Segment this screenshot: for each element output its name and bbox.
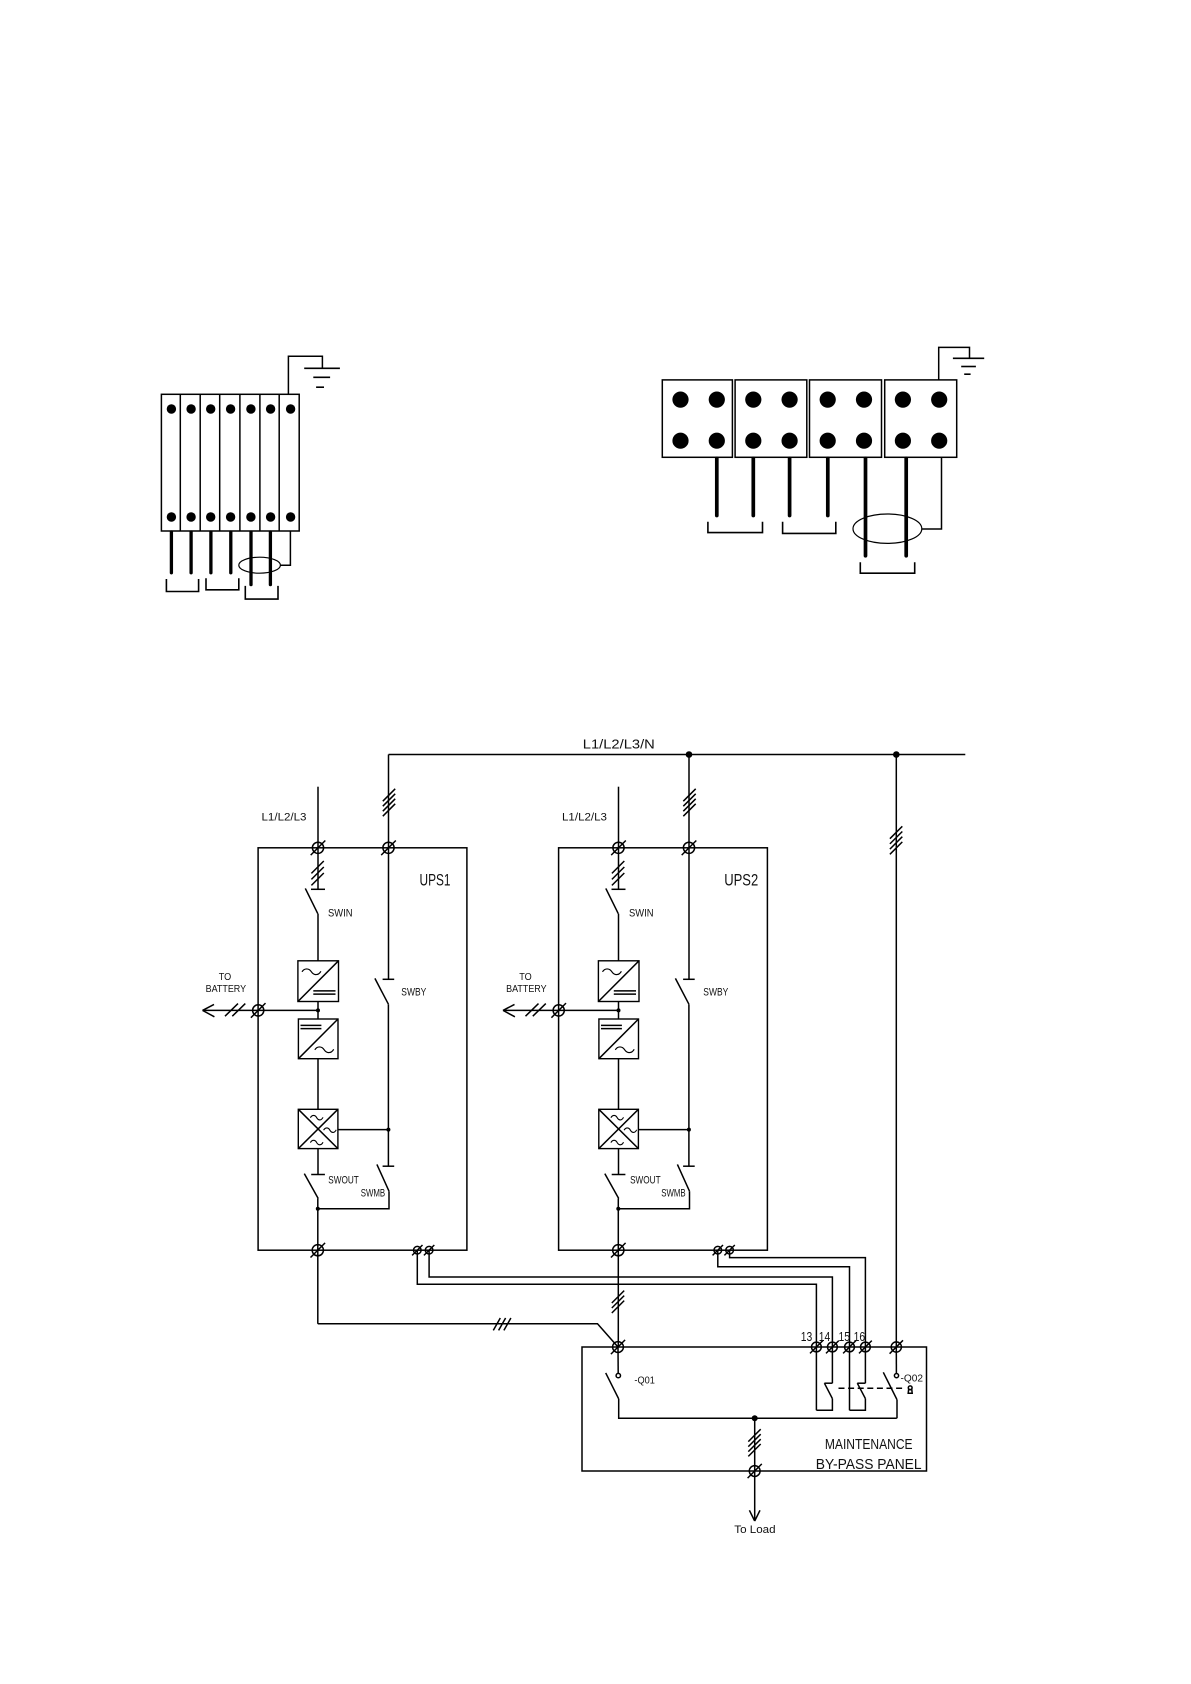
arrowhead to battery (UPS1) (203, 1004, 215, 1016)
wire: UPS1 mains input stub L1/L2/L3 (317, 787, 319, 848)
terminal: UPS2 bypass feed-through bushing B (724, 1245, 734, 1255)
rectifier U4 (UPS2 AC/DC converter) (598, 961, 639, 1002)
node: UPS1 inverter/bypass junction (386, 1128, 390, 1132)
wire: panel bus to output bushing (754, 1418, 756, 1471)
wire: UPS2 inverter output to bypass node (638, 1129, 689, 1131)
arrowhead to load (749, 1510, 760, 1521)
wire: SWMB down and across to output node (318, 1191, 389, 1209)
break mark on UPS2 battery feeder (526, 1004, 546, 1017)
switch SWIN (UPS2) blade (606, 888, 619, 913)
terminal: UPS1 bypass feed-through bushing A (412, 1245, 422, 1255)
terminal: UPS1 bypass input bushing (381, 841, 396, 856)
TB2 current transformer ellipse (853, 514, 922, 543)
node: UPS1 DC bus junction (316, 1008, 320, 1012)
terminal: UPS2 bypass input bushing (682, 841, 697, 856)
TB1 earth conductor to ground (288, 356, 322, 394)
terminal: panel bypass input bushing (890, 1340, 903, 1353)
ground symbol (left) (304, 368, 340, 387)
svg-text:16: 16 (854, 1330, 866, 1344)
battery converter U2 (UPS1 DC/DC) (298, 1019, 338, 1059)
wire: -Q02 down to panel bus (896, 1400, 898, 1419)
wire: UPS1 output line through bottom bushing (317, 1199, 319, 1324)
svg-text:SWIN: SWIN (328, 907, 353, 919)
break mark on UPS1 input line (311, 861, 323, 885)
switch SWOUT (UPS1) fixed contact tick (311, 1174, 325, 1176)
wire: mains rail L1/L2/L3/N (389, 754, 966, 756)
wire: UPS1 output run to panel input (318, 1324, 618, 1347)
switch SWOUT (UPS1) blade (304, 1174, 318, 1199)
break mark on UPS1 bypass dropper (383, 789, 395, 816)
breaker 15/16 fixed contact tick (857, 1382, 865, 1384)
battery converter U5 (UPS2 DC/DC) (599, 1019, 639, 1059)
switch SWBY (UPS2) fixed contact tick (683, 978, 695, 980)
terminal 16 bushing (859, 1341, 872, 1354)
wire: DC link to inverter (317, 1059, 319, 1110)
TB1 current transformer ellipse (239, 557, 281, 573)
svg-text:To Load: To Load (734, 1524, 775, 1536)
break mark on maintenance bypass dropper (890, 826, 902, 854)
svg-text:UPS2: UPS2 (724, 870, 758, 889)
node: UPS2 DC bus junction (617, 1008, 621, 1012)
switch SWIN (UPS2) fixed contact tick (612, 888, 626, 890)
svg-text:MAINTENANCE: MAINTENANCE (825, 1436, 913, 1453)
wire: UPS1 battery feeder (203, 1009, 319, 1011)
terminal: UPS2 bypass feed-through bushing A (713, 1245, 723, 1255)
switch SWMB (UPS2) fixed contact tick (683, 1165, 695, 1167)
switch -Q02 upper contact circle (894, 1347, 898, 1378)
switch SWMB (UPS1) fixed contact tick (383, 1165, 395, 1167)
TB2 cable group bracket 3 (860, 562, 914, 573)
terminal: UPS1 output bushing (311, 1243, 326, 1258)
switch SWBY (UPS1) blade (375, 978, 389, 1004)
terminal 13 bushing (810, 1341, 823, 1354)
svg-text:SWOUT: SWOUT (630, 1175, 661, 1187)
break mark on UPS2 input line (612, 861, 624, 885)
TB2 thin earth tail wire (922, 457, 942, 529)
UPS1 enclosure box (258, 848, 467, 1250)
svg-text:BY-PASS PANEL: BY-PASS PANEL (816, 1456, 922, 1473)
wire: UPS2 output line through bottom bushing (617, 1199, 619, 1348)
switch SWMB (UPS1) blade (377, 1164, 389, 1191)
break mark on UPS1 output run (493, 1318, 511, 1330)
TB1 outgoing cable wires (171, 532, 270, 585)
svg-text:SWIN: SWIN (629, 907, 654, 919)
terminal: UPS1 battery bushing on enclosure (251, 1003, 266, 1018)
wire: dropper from rail to UPS1 bypass input (388, 755, 390, 848)
TB2 screw contact dots (672, 392, 947, 449)
terminal: panel output bushing (748, 1464, 762, 1478)
wire: -Q01 to panel bus (619, 1399, 897, 1418)
wire: panel output to load (754, 1471, 756, 1521)
dashed interlock linkage 13/14-15/16--Q02 (839, 1387, 904, 1389)
switch SWIN (UPS1) blade (305, 888, 318, 913)
node: rail junction at maintenance bypass dropper (893, 751, 900, 758)
switch SWBY (UPS1) fixed contact tick (383, 978, 395, 980)
wire: SWIN to rectifier (317, 914, 319, 961)
wire: SWBY to junction and SWMB contact (387, 1004, 389, 1166)
svg-text:SWBY: SWBY (703, 986, 729, 998)
node: rail junction at UPS2 bypass (686, 751, 693, 758)
svg-text:15: 15 (839, 1330, 851, 1344)
switch -Q02 blade (883, 1372, 897, 1399)
terminal: UPS2 output bushing (611, 1243, 626, 1258)
terminal 14 bushing (826, 1341, 839, 1354)
rectifier U1 (UPS1 AC/DC converter) (298, 961, 339, 1002)
TB2 earth conductor to ground (939, 347, 970, 380)
wire: inverter to SWOUT contact (UPS2) (618, 1149, 620, 1175)
wire: UPS1 input to SWIN contact (317, 848, 319, 890)
wire: dropper from rail to maintenance by-pass panel (895, 755, 897, 1348)
terminal: UPS1 mains input bushing (311, 841, 326, 856)
maintenance by-pass panel box (582, 1347, 927, 1471)
svg-text:L1/L2/L3: L1/L2/L3 (562, 812, 607, 824)
wire: UPS1 bypass feed A to terminal 13 (417, 1250, 816, 1410)
wire: dropper from rail to UPS2 bypass input (688, 755, 690, 848)
terminal: UPS2 mains input bushing (611, 841, 626, 856)
wire: UPS1 bypass feed B to terminal 14 (429, 1250, 832, 1383)
terminal: panel input bushing (611, 1340, 625, 1354)
svg-text:SWBY: SWBY (401, 986, 427, 998)
wire: UPS2 bypass branch down to SWBY (688, 848, 690, 980)
svg-text:SWOUT: SWOUT (328, 1175, 359, 1187)
svg-text:14: 14 (819, 1330, 831, 1344)
wire: UPS1 bypass branch down to SWBY (388, 848, 390, 980)
wire: UPS2 bypass feed B to terminal 16 (730, 1250, 866, 1383)
interlock lock symbol (908, 1386, 912, 1393)
terminal block TB2 body (4 blocks) (662, 380, 956, 457)
inverter U3 (UPS1) (298, 1109, 338, 1148)
wire: rectifier to DC bus (317, 1002, 319, 1020)
terminal block TB1 body (7-pole strip) (161, 394, 299, 531)
switch SWMB (UPS2) blade (677, 1164, 689, 1191)
wire: UPS2 battery feeder (503, 1009, 619, 1011)
node: panel bus junction (752, 1415, 758, 1421)
breaker 13/14 fixed contact tick (824, 1382, 832, 1384)
svg-text:TO: TO (219, 971, 232, 983)
switch SWIN (UPS1) fixed contact tick (311, 888, 325, 890)
switch SWOUT (UPS2) blade (605, 1174, 619, 1199)
TB2 cable group bracket 2 (783, 522, 836, 534)
svg-text:L1/L2/L3: L1/L2/L3 (262, 812, 307, 824)
wire: DC link to inverter (UPS2) (618, 1059, 620, 1110)
break mark on UPS2 output line (612, 1291, 624, 1313)
svg-text:UPS1: UPS1 (420, 870, 451, 889)
node: UPS2 output junction (616, 1207, 620, 1211)
TB1 thin earth tail wire (280, 531, 290, 565)
terminal 15 bushing (843, 1341, 856, 1354)
break mark on UPS1 battery feeder (225, 1004, 245, 1017)
wire: inverter to SWOUT contact (317, 1149, 319, 1175)
wire: SWMB down and across to output node (UPS2) (618, 1191, 689, 1209)
inverter U6 (UPS2) (599, 1109, 639, 1148)
wire: UPS1 inverter output to bypass node (338, 1129, 389, 1131)
terminal: UPS2 battery bushing on enclosure (551, 1003, 566, 1018)
svg-text:-Q01: -Q01 (634, 1374, 655, 1386)
svg-text:BATTERY: BATTERY (506, 983, 546, 995)
terminal: UPS1 bypass feed-through bushing B (424, 1245, 434, 1255)
TB2 cable group bracket 1 (708, 522, 763, 533)
wire: UPS2 mains input stub L1/L2/L3 (618, 787, 620, 848)
TB1 cable group bracket 1 (166, 579, 198, 592)
TB1 cable group bracket 3 (245, 586, 278, 599)
TB1 screw contact dots (167, 404, 296, 521)
switch SWOUT (UPS2) fixed contact tick (612, 1174, 626, 1176)
svg-text:-Q02: -Q02 (901, 1373, 924, 1385)
ground symbol (right) (953, 358, 984, 374)
breaker 13/14 blade (824, 1383, 832, 1398)
wire: UPS2 bypass feed A to terminal 15 (718, 1250, 850, 1410)
switch -Q01 blade (606, 1373, 619, 1399)
wire: SWBY to junction and SWMB contact (UPS2) (688, 1004, 690, 1166)
svg-text:L1/L2/L3/N: L1/L2/L3/N (583, 738, 655, 752)
svg-text:SWMB: SWMB (661, 1188, 686, 1200)
break mark on UPS2 bypass dropper (683, 789, 695, 816)
svg-text:BATTERY: BATTERY (206, 983, 247, 995)
wire: rectifier to DC bus (UPS2) (618, 1002, 620, 1020)
node: UPS1 output junction (316, 1207, 320, 1211)
breaker 13/14 bottom link (816, 1399, 832, 1411)
wire: SWIN to rectifier (UPS2) (618, 914, 620, 961)
arrowhead to battery (UPS2) (503, 1004, 515, 1016)
UPS2 enclosure box (559, 848, 768, 1250)
break mark on panel output (748, 1429, 760, 1456)
svg-text:TO: TO (519, 971, 532, 983)
switch SWBY (UPS2) blade (675, 978, 689, 1004)
wire: UPS2 input to SWIN contact (618, 848, 620, 890)
svg-text:SWMB: SWMB (361, 1188, 386, 1200)
switch -Q01 upper contact circle (616, 1347, 620, 1378)
breaker 15/16 blade (857, 1383, 865, 1398)
TB1 cable group bracket 2 (206, 578, 239, 590)
svg-text:13: 13 (801, 1330, 813, 1344)
node: UPS2 inverter/bypass junction (687, 1128, 691, 1132)
breaker 15/16 bottom link (850, 1399, 866, 1411)
TB2 outgoing cable wires (717, 458, 906, 556)
